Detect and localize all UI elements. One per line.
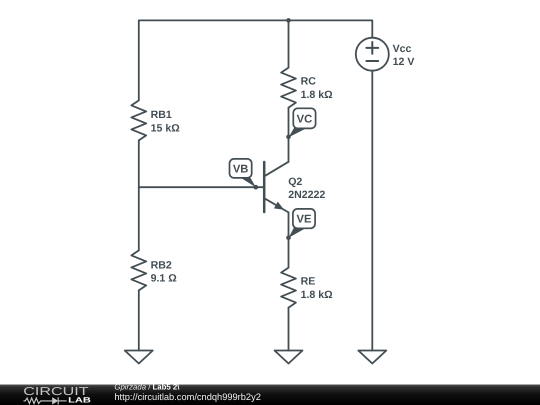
svg-text:1.8 kΩ: 1.8 kΩ: [301, 289, 334, 301]
svg-text:RB1: RB1: [151, 109, 172, 121]
svg-text:Vcc: Vcc: [393, 43, 412, 55]
svg-text:12 V: 12 V: [393, 56, 415, 68]
svg-text:RE: RE: [301, 276, 316, 288]
svg-text:15 kΩ: 15 kΩ: [151, 122, 181, 134]
svg-text:RB2: RB2: [151, 259, 172, 271]
svg-text:1.8 kΩ: 1.8 kΩ: [301, 89, 334, 101]
svg-text:Q2: Q2: [288, 176, 302, 188]
svg-text:VE: VE: [297, 213, 312, 225]
svg-text:http://circuitlab.com/cndqh999: http://circuitlab.com/cndqh999rb2y2: [114, 391, 261, 402]
svg-text:LAB: LAB: [68, 396, 92, 405]
svg-text:VC: VC: [297, 113, 313, 125]
svg-text:VB: VB: [233, 163, 249, 175]
svg-text:RC: RC: [301, 76, 317, 88]
svg-text:2N2222: 2N2222: [288, 189, 325, 201]
svg-text:9.1 Ω: 9.1 Ω: [151, 273, 178, 285]
